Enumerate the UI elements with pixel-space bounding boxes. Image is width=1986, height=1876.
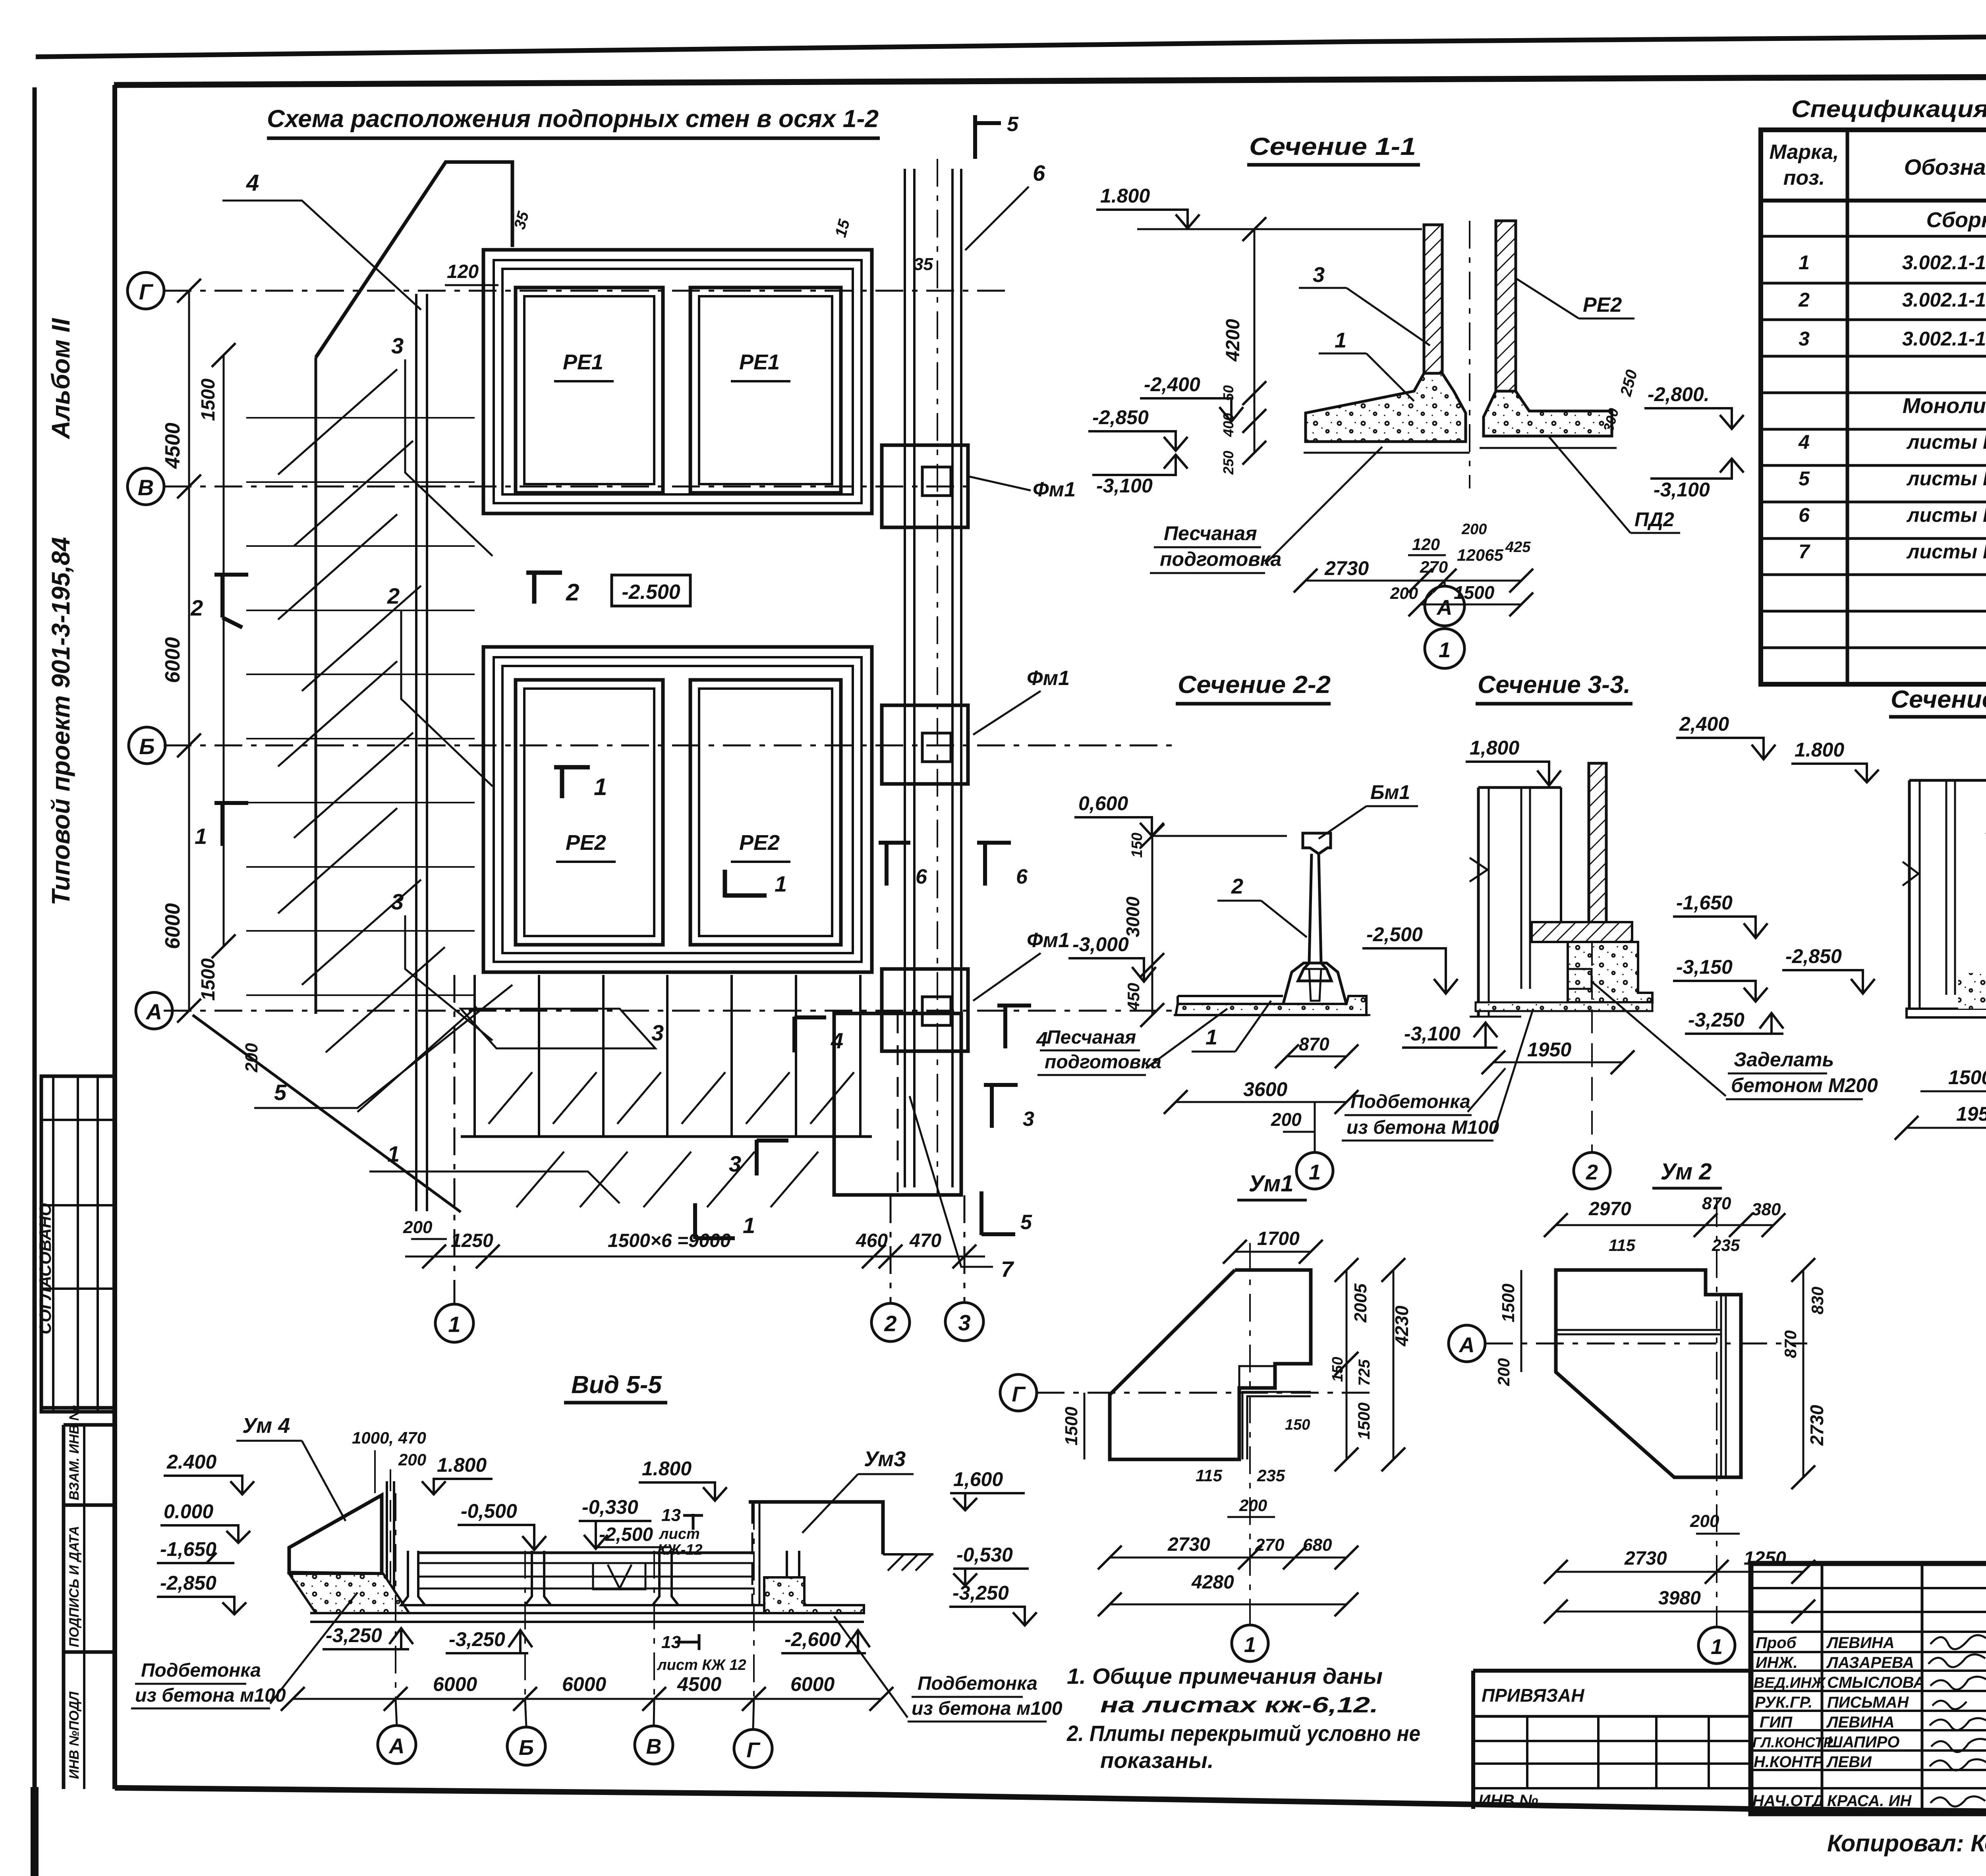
svg-text:-2,850: -2,850 — [160, 1572, 216, 1594]
svg-text:6: 6 — [1016, 865, 1028, 888]
wall panel right (hatched) — [1496, 221, 1516, 407]
svg-text:ГИП: ГИП — [1760, 1714, 1793, 1731]
right corner block (Ум3) — [749, 1502, 883, 1554]
svg-text:1500: 1500 — [198, 958, 219, 1001]
привязан table — [1473, 1669, 1751, 1673]
Фм1 box on axis В — [882, 445, 968, 527]
spec table outer border — [1761, 130, 1986, 684]
svg-text:3: 3 — [1799, 328, 1810, 350]
svg-text:СМЫСЛОВА: СМЫСЛОВА — [1827, 1674, 1925, 1691]
title block outer border — [1751, 1563, 1986, 1814]
svg-text:6: 6 — [916, 865, 927, 888]
axis 3 bubble — [964, 1195, 966, 1302]
lower tank block outer walls — [483, 647, 872, 972]
svg-text:115: 115 — [1196, 1466, 1223, 1485]
svg-text:3: 3 — [1023, 1108, 1034, 1131]
top slab — [1532, 922, 1632, 942]
svg-text:Сечение 4-4: Сечение 4-4 — [1891, 686, 1986, 713]
frame bottom line — [115, 1788, 1986, 1816]
svg-text:Монолитные жел.-бет. констру: Монолитные жел.-бет. конструкции — [1903, 394, 1986, 418]
svg-text:КРАСА. ИН: КРАСА. ИН — [1827, 1792, 1912, 1810]
svg-text:Фм1: Фм1 — [1027, 667, 1070, 690]
signatures squiggles — [1928, 1635, 1986, 1807]
column stem tapered — [1298, 854, 1331, 981]
svg-text:1: 1 — [1206, 1025, 1217, 1049]
svg-text:1: 1 — [1439, 638, 1451, 662]
svg-text:А: А — [145, 999, 162, 1024]
svg-text:ПД2: ПД2 — [1634, 508, 1674, 531]
svg-text:Бм1: Бм1 — [1370, 781, 1410, 803]
svg-text:725: 725 — [1356, 1359, 1373, 1386]
svg-text:2005: 2005 — [1351, 1283, 1370, 1323]
inner lines — [1720, 1295, 1722, 1477]
berm left toe line — [315, 357, 317, 1014]
svg-text:РУК.ГР.: РУК.ГР. — [1755, 1694, 1812, 1711]
svg-text:2: 2 — [884, 1311, 896, 1336]
svg-text:870: 870 — [1299, 1034, 1329, 1054]
svg-text:200: 200 — [1239, 1496, 1267, 1515]
section flag 1 far left — [214, 802, 248, 846]
svg-text:380: 380 — [1752, 1200, 1781, 1219]
svg-text:3: 3 — [729, 1151, 741, 1176]
svg-text:200: 200 — [1271, 1109, 1302, 1130]
paper left edge line — [33, 87, 37, 1787]
footing stipple — [1958, 973, 1986, 1009]
svg-text:4200: 4200 — [1223, 319, 1244, 362]
svg-text:ИНВ №: ИНВ № — [1478, 1791, 1538, 1810]
svg-text:-3,250: -3,250 — [1688, 1009, 1745, 1031]
svg-text:1950: 1950 — [1527, 1038, 1571, 1061]
svg-text:1: 1 — [743, 1213, 755, 1238]
svg-text:-0,330: -0,330 — [582, 1496, 638, 1518]
svg-text:6000: 6000 — [433, 1673, 477, 1695]
svg-text:1700: 1700 — [1257, 1228, 1300, 1249]
svg-text:2730: 2730 — [1324, 557, 1369, 579]
label 7 with leader — [910, 1096, 993, 1267]
svg-text:-2,850: -2,850 — [1785, 945, 1842, 967]
svg-text:-2,800.: -2,800. — [1648, 383, 1710, 405]
central recess — [593, 1563, 645, 1589]
left vertical dimension line — [188, 291, 190, 1011]
thin wall bar — [386, 1481, 388, 1612]
svg-text:2730: 2730 — [1624, 1548, 1667, 1569]
svg-text:6000: 6000 — [562, 1673, 606, 1695]
svg-text:Б: Б — [139, 734, 155, 759]
svg-text:Ум3: Ум3 — [864, 1447, 906, 1471]
svg-text:115: 115 — [1609, 1236, 1636, 1255]
axis А line — [164, 1010, 1172, 1012]
svg-text:ВЗАМ. ИНВ №: ВЗАМ. ИНВ № — [67, 1405, 82, 1500]
level line 1.800 — [1137, 228, 1422, 230]
svg-text:3: 3 — [651, 1020, 664, 1045]
svg-text:из бетона м100: из бетона м100 — [912, 1698, 1063, 1719]
svg-text:Типовой проект 901-3-195,84: Типовой проект 901-3-195,84 — [46, 537, 75, 905]
bottom shelf line — [401, 1604, 806, 1606]
svg-text:1500: 1500 — [1062, 1407, 1081, 1446]
svg-text:35: 35 — [914, 255, 933, 274]
svg-text:Обозначение: Обозначение — [1904, 154, 1986, 179]
svg-text:2: 2 — [1798, 289, 1810, 311]
svg-text:4230: 4230 — [1391, 1305, 1412, 1347]
right dim chain — [1346, 1270, 1348, 1459]
svg-text:7: 7 — [1799, 540, 1810, 563]
section flag 5 top — [975, 115, 1001, 159]
svg-text:ЛЕВИ: ЛЕВИ — [1826, 1753, 1872, 1771]
svg-text:5: 5 — [1799, 467, 1810, 490]
svg-text:-3,000: -3,000 — [1072, 933, 1129, 955]
svg-text:13: 13 — [661, 1505, 681, 1525]
svg-text:Сечение 2-2: Сечение 2-2 — [1178, 671, 1331, 699]
svg-text:3: 3 — [391, 333, 404, 358]
svg-text:Песчаная: Песчаная — [1047, 1027, 1136, 1048]
svg-text:1950: 1950 — [1956, 1103, 1986, 1125]
section flag 5 bottom right — [981, 1191, 1015, 1235]
svg-text:Подбетонка: Подбетонка — [918, 1673, 1037, 1694]
svg-text:РЕ1: РЕ1 — [563, 350, 603, 374]
corner wall polygon — [1110, 1270, 1311, 1459]
svg-text:листы КЖ 5,6: листы КЖ 5,6 — [1906, 431, 1986, 453]
svg-text:1: 1 — [1799, 251, 1810, 274]
svg-text:200: 200 — [398, 1450, 426, 1469]
sand layer — [1174, 1014, 1370, 1016]
svg-text:Песчаная: Песчаная — [1164, 522, 1257, 544]
svg-text:200: 200 — [1461, 521, 1487, 538]
lower stamp cells — [62, 1425, 66, 1789]
svg-text:1: 1 — [594, 774, 607, 800]
svg-text:150: 150 — [1329, 1357, 1346, 1382]
svg-text:5: 5 — [1007, 113, 1019, 136]
svg-text:Альбом II: Альбом II — [46, 318, 75, 440]
svg-text:3980: 3980 — [1658, 1588, 1701, 1609]
axis Б bubble — [129, 727, 165, 764]
svg-text:РЕ2: РЕ2 — [1583, 293, 1622, 317]
tank wall lines — [1908, 780, 1911, 1009]
right channel wall lines — [905, 169, 961, 1187]
right dims 830 870 2730 — [1802, 1270, 1804, 1477]
svg-text:ПРИВЯЗАН: ПРИВЯЗАН — [1482, 1685, 1584, 1706]
svg-text:1,800: 1,800 — [1470, 737, 1519, 759]
svg-text:Вид 5-5: Вид 5-5 — [571, 1371, 662, 1399]
svg-text:270: 270 — [1420, 558, 1448, 576]
axis Г bubble — [128, 272, 164, 309]
wall panel left (hatched) — [1424, 225, 1442, 407]
svg-text:-2,500: -2,500 — [599, 1524, 653, 1545]
axis Г line — [164, 290, 1009, 292]
svg-text:200: 200 — [403, 1218, 433, 1237]
bottom dimension line — [405, 1256, 985, 1258]
svg-text:РЕ1: РЕ1 — [739, 350, 780, 374]
svg-text:2. Плиты перекрытий условно не: 2. Плиты перекрытий условно не — [1066, 1721, 1420, 1746]
section flag 3 lower — [757, 1140, 788, 1175]
section flag 2 far left — [214, 574, 248, 627]
svg-text:425: 425 — [1505, 539, 1531, 556]
svg-text:3000: 3000 — [1122, 896, 1143, 937]
axis Г bubble — [1000, 1374, 1037, 1411]
tank РЕ1 left — [516, 288, 663, 493]
svg-text:-3,250: -3,250 — [449, 1628, 505, 1650]
svg-text:1: 1 — [1309, 1160, 1321, 1184]
svg-text:-3,250: -3,250 — [952, 1582, 1009, 1604]
level box -2.500 — [612, 575, 690, 606]
mark Т1 — [554, 766, 590, 798]
Фм1 box on axis А — [882, 969, 968, 1051]
svg-text:1.800: 1.800 — [1795, 739, 1844, 761]
svg-text:460: 460 — [856, 1230, 888, 1251]
svg-text:ВЕД.ИНЖ: ВЕД.ИНЖ — [1754, 1675, 1826, 1691]
svg-text:листы КЖ 5,6: листы КЖ 5,6 — [1906, 540, 1986, 563]
svg-text:1.800: 1.800 — [437, 1454, 487, 1476]
svg-text:поз.: поз. — [1783, 166, 1825, 189]
svg-text:-3,100: -3,100 — [1096, 475, 1153, 497]
signature column verticals — [1821, 1563, 1824, 1814]
svg-text:3: 3 — [391, 889, 404, 914]
svg-text:2: 2 — [1231, 874, 1243, 898]
mushroom column: cap — [1303, 833, 1331, 854]
svg-text:200: 200 — [1494, 1358, 1513, 1386]
svg-text:лист КЖ 12: лист КЖ 12 — [657, 1657, 746, 1673]
svg-text:0.000: 0.000 — [164, 1500, 213, 1523]
left dim 1500 — [1084, 1393, 1086, 1459]
panel joint lines across berm — [246, 418, 475, 995]
svg-text:листы КЖ 5,6: листы КЖ 5,6 — [1906, 467, 1986, 490]
vertical axis line — [1249, 1243, 1251, 1624]
svg-text:-2.500: -2.500 — [622, 581, 680, 604]
svg-text:235: 235 — [1257, 1466, 1285, 1485]
Ум4 corner block — [289, 1495, 382, 1574]
svg-text:-3,100: -3,100 — [1404, 1023, 1461, 1045]
section flag 4 right — [997, 1005, 1031, 1048]
axis Б line — [164, 745, 1172, 747]
svg-text:1500: 1500 — [198, 378, 219, 421]
svg-text:1: 1 — [387, 1141, 400, 1166]
svg-text:Сечение 3-3.: Сечение 3-3. — [1478, 671, 1631, 699]
svg-text:235: 235 — [1712, 1236, 1740, 1255]
svg-text:150: 150 — [1285, 1417, 1310, 1433]
svg-text:450: 450 — [1124, 983, 1143, 1011]
svg-text:1.800: 1.800 — [642, 1457, 692, 1480]
base slab — [310, 1612, 864, 1614]
svg-text:1. Общие примечания даны: 1. Общие примечания даны — [1067, 1664, 1383, 1689]
retaining wall double line left — [415, 294, 417, 1211]
svg-text:1: 1 — [1711, 1635, 1723, 1659]
svg-text:Сечение 1-1: Сечение 1-1 — [1249, 133, 1416, 160]
footing slab — [1176, 996, 1366, 1015]
svg-text:200: 200 — [1390, 584, 1418, 602]
berm hatch strokes — [278, 369, 477, 1112]
svg-text:270: 270 — [1255, 1535, 1285, 1555]
bottom dim line — [293, 1698, 881, 1700]
spec table column lines — [1846, 130, 1849, 684]
svg-text:Ум 2: Ум 2 — [1660, 1159, 1712, 1185]
section flag 3 right — [984, 1084, 1018, 1128]
svg-text:-3,150: -3,150 — [1676, 956, 1733, 978]
spec table row lines — [1761, 199, 1986, 203]
svg-text:Проб: Проб — [1756, 1634, 1797, 1652]
svg-text:120: 120 — [1412, 535, 1440, 554]
section flag 4 mid — [794, 1017, 826, 1052]
svg-text:2: 2 — [387, 583, 400, 608]
svg-text:-3,100: -3,100 — [1654, 479, 1710, 501]
svg-text:5: 5 — [1020, 1211, 1032, 1234]
svg-text:1500×6 =9000: 1500×6 =9000 — [608, 1230, 731, 1251]
svg-text:-2,850: -2,850 — [1092, 406, 1149, 428]
svg-text:подготовка: подготовка — [1045, 1052, 1161, 1073]
svg-text:470: 470 — [909, 1230, 941, 1251]
corner stipple step — [764, 1577, 864, 1613]
svg-text:120: 120 — [447, 261, 479, 282]
svg-text:4: 4 — [246, 170, 259, 196]
svg-text:Г: Г — [139, 279, 154, 304]
svg-text:Схема расположения подпорных с: Схема расположения подпорных стен в осях… — [267, 105, 879, 133]
berm top step outline — [316, 162, 512, 357]
svg-text:1500: 1500 — [1499, 1283, 1518, 1322]
svg-text:на листах кж-6,12.: на листах кж-6,12. — [1100, 1692, 1378, 1717]
svg-text:-2,400: -2,400 — [1144, 373, 1200, 396]
svg-text:4: 4 — [1036, 1028, 1048, 1051]
svg-text:ЛАЗАРЕВА: ЛАЗАРЕВА — [1826, 1654, 1914, 1671]
svg-text:1500: 1500 — [1354, 1403, 1373, 1440]
svg-text:150: 150 — [1129, 833, 1146, 858]
svg-text:Марка,: Марка, — [1770, 141, 1839, 164]
footing strip partitions below building — [475, 975, 860, 1136]
axis В bubble — [128, 468, 164, 505]
svg-text:КЖ-12: КЖ-12 — [657, 1542, 703, 1558]
svg-text:ПИСЬМАН: ПИСЬМАН — [1827, 1694, 1909, 1711]
axis bubble 1 — [1425, 629, 1464, 668]
tank РЕ2 left — [516, 680, 663, 945]
tank wall left (cut) — [1477, 787, 1480, 1017]
svg-text:200: 200 — [1690, 1511, 1719, 1531]
svg-text:250: 250 — [1220, 451, 1236, 475]
svg-text:4280: 4280 — [1191, 1572, 1234, 1593]
axis bubble 1 — [1314, 1102, 1316, 1152]
vertical axis line — [1716, 1199, 1717, 1626]
frame left line — [112, 85, 117, 1789]
svg-text:1: 1 — [1335, 328, 1347, 352]
svg-text:4500: 4500 — [161, 423, 184, 469]
svg-text:1: 1 — [1244, 1633, 1256, 1657]
svg-text:50: 50 — [1220, 385, 1236, 401]
hatched parallelogram label 3 — [461, 1009, 655, 1048]
vertical dim line — [1254, 229, 1256, 453]
svg-text:3600: 3600 — [1243, 1078, 1287, 1100]
section mark 1 inside РЕ2 — [725, 870, 767, 897]
svg-text:Ум 4: Ум 4 — [242, 1414, 290, 1438]
ground line and hatch right — [883, 1553, 933, 1556]
svg-text:2.400: 2.400 — [166, 1451, 216, 1473]
small pocket — [1568, 969, 1592, 989]
svg-text:Сборные жел.-бет. конструкци: Сборные жел.-бет. конструкции — [1926, 208, 1986, 232]
svg-text:680: 680 — [1303, 1535, 1332, 1555]
svg-text:-0,500: -0,500 — [461, 1500, 517, 1522]
svg-text:1: 1 — [448, 1312, 460, 1337]
svg-text:2730: 2730 — [1167, 1534, 1210, 1555]
svg-text:Копировал: Корецкая: Копировал: Корецкая — [1827, 1830, 1986, 1857]
svg-text:из бетона М100: из бетона М100 — [1347, 1117, 1499, 1138]
svg-text:листы КЖ 5,6: листы КЖ 5,6 — [1906, 504, 1986, 526]
svg-text:0,600: 0,600 — [1078, 792, 1128, 814]
vertical dim — [1151, 836, 1153, 1015]
svg-text:ЛЕВИНА: ЛЕВИНА — [1826, 1714, 1895, 1731]
svg-text:НАЧ.ОТД: НАЧ.ОТД — [1752, 1792, 1824, 1810]
hatch in footing strip — [489, 1072, 854, 1207]
svg-text:4: 4 — [1798, 431, 1810, 453]
svg-text:1500: 1500 — [1948, 1066, 1986, 1089]
stipple wedge under Ум4 — [289, 1574, 409, 1613]
svg-text:Фм1: Фм1 — [1033, 478, 1076, 501]
svg-text:400: 400 — [1220, 413, 1236, 437]
svg-text:Спецификация подпорных стен в: Спецификация подпорных стен в осях 1-2" — [1791, 96, 1986, 122]
svg-text:870: 870 — [1781, 1330, 1800, 1358]
svg-text:СОГЛАСОВАНО: СОГЛАСОВАНО — [36, 1203, 54, 1334]
right lower rectangle (wall Ум3 in plan) — [834, 1013, 961, 1195]
axis 1 line and bubble — [454, 975, 456, 1303]
svg-text:Б: Б — [519, 1736, 534, 1760]
svg-text:6: 6 — [1033, 160, 1045, 185]
row labels — [1752, 1634, 1925, 1810]
svg-text:3: 3 — [1313, 263, 1325, 287]
column base bell — [1283, 963, 1347, 1005]
согласовано stamp table — [41, 1076, 115, 1412]
svg-text:Н.КОНТР: Н.КОНТР — [1754, 1753, 1823, 1771]
svg-text:-1,650: -1,650 — [1676, 892, 1733, 914]
svg-text:7: 7 — [1001, 1256, 1014, 1282]
svg-text:1000, 470: 1000, 470 — [352, 1428, 426, 1447]
svg-text:А: А — [1459, 1333, 1475, 1357]
svg-text:6: 6 — [1799, 504, 1810, 526]
footing strip bottom edge — [461, 1135, 872, 1138]
svg-text:1: 1 — [195, 824, 207, 849]
section flag 6 right pair — [879, 842, 910, 886]
svg-text:3.002.1-1 Вып.1: 3.002.1-1 Вып.1 — [1902, 328, 1986, 350]
signature row lines — [1751, 1588, 1986, 1788]
svg-text:подготовка: подготовка — [1160, 548, 1281, 570]
inner tank lines — [1520, 787, 1522, 989]
svg-text:3.002.1-1 Вып.1: 3.002.1-1 Вып.1 — [1902, 289, 1986, 311]
svg-text:1.800: 1.800 — [1100, 185, 1150, 207]
svg-text:12065: 12065 — [1457, 546, 1503, 564]
svg-text:Г: Г — [1012, 1382, 1026, 1406]
svg-text:ИНЖ.: ИНЖ. — [1756, 1654, 1798, 1671]
svg-text:из бетона м100: из бетона м100 — [135, 1685, 286, 1706]
svg-text:1250: 1250 — [451, 1230, 493, 1251]
svg-text:6000: 6000 — [790, 1673, 835, 1695]
svg-text:ПОДПИСЬ И ДАТА: ПОДПИСЬ И ДАТА — [67, 1526, 82, 1647]
svg-text:бетоном М200: бетоном М200 — [1731, 1074, 1878, 1096]
svg-text:6000: 6000 — [161, 637, 184, 683]
svg-text:-3,250: -3,250 — [326, 1624, 382, 1646]
axis dash line and bubble 2 — [1591, 942, 1593, 1152]
svg-text:5: 5 — [274, 1080, 287, 1105]
svg-text:-2,500: -2,500 — [1366, 923, 1423, 946]
svg-text:2970: 2970 — [1588, 1199, 1631, 1220]
svg-text:РЕ2: РЕ2 — [566, 831, 606, 855]
axis bubble 1 — [1698, 1627, 1735, 1664]
svg-text:В: В — [646, 1735, 662, 1758]
wall footing mass — [1568, 942, 1652, 1002]
wall panels top lines — [418, 1552, 755, 1554]
svg-text:ИНВ №ПОДЛ: ИНВ №ПОДЛ — [67, 1691, 82, 1779]
tank РЕ1 right — [690, 288, 841, 493]
left dims 1500 200 — [1520, 1270, 1522, 1372]
inner anchor pocket — [1309, 969, 1321, 1001]
svg-text:В: В — [138, 475, 154, 500]
level line 0.600 — [1152, 835, 1287, 837]
svg-text:Фм1: Фм1 — [1027, 929, 1070, 952]
svg-text:1,600: 1,600 — [953, 1468, 1003, 1490]
wall polygon — [1556, 1270, 1741, 1477]
svg-text:Ум1: Ум1 — [1249, 1171, 1294, 1197]
